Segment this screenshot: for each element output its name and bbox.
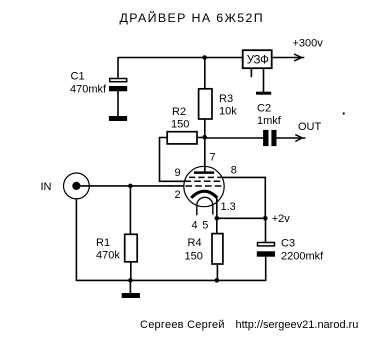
wire U1 to ground — [263, 68, 265, 92]
node cathode/R4 — [215, 216, 220, 221]
wire U1 stub pin — [250, 68, 252, 76]
tube grid g1 (bottom dashed) — [185, 185, 221, 187]
svg-text:7: 7 — [210, 152, 216, 164]
svg-text:150: 150 — [171, 119, 189, 131]
wire pin 8 to +2v node — [222, 177, 265, 218]
wire C1 bottom — [117, 91, 119, 116]
wire OUT — [277, 137, 306, 139]
svg-text:C2: C2 — [257, 103, 271, 115]
capacitor C2 — [263, 130, 276, 146]
wire C1 top — [117, 57, 119, 78]
arrow +300v — [294, 54, 301, 61]
wire R2 right to node — [197, 137, 205, 139]
svg-text:ДРАЙВЕР НА 6Ж52П: ДРАЙВЕР НА 6Ж52П — [120, 10, 265, 25]
tube grid g2 (middle dashed) — [185, 180, 223, 182]
capacitor C3 — [257, 243, 275, 257]
node R1/ground bus — [128, 278, 133, 283]
wire ground bus bottom — [76, 279, 265, 281]
svg-text:C1: C1 — [71, 71, 85, 83]
wire C3 bottom — [265, 257, 267, 281]
node anode (R2/R3/C2/plate) — [202, 135, 207, 140]
svg-text:+300v: +300v — [293, 38, 324, 50]
connector IN — [64, 173, 90, 199]
svg-text:R4: R4 — [188, 237, 202, 249]
tube cathode — [191, 191, 217, 198]
capacitor C1 — [109, 79, 127, 92]
wire R3 top — [204, 58, 206, 89]
wire R3 bottom — [204, 119, 206, 138]
resistor R4 — [212, 234, 223, 264]
node IN/R1 — [128, 184, 133, 189]
wire heater pin 5 — [212, 205, 214, 214]
svg-text:УЗФ: УЗФ — [247, 55, 269, 67]
wire R2 left to grid pin 9 — [160, 138, 185, 182]
wire ground stub — [129, 280, 131, 293]
ground U1 — [256, 92, 271, 95]
svg-text:R2: R2 — [172, 106, 186, 118]
arrow OUT — [295, 135, 301, 142]
svg-text:10k: 10k — [219, 106, 237, 118]
svg-text:IN: IN — [41, 181, 52, 193]
wire R1 top — [129, 186, 131, 234]
block U1 (УЗФ power filter) — [243, 50, 272, 68]
svg-text:Сергеев Сергей: Сергеев Сергей — [140, 319, 225, 331]
svg-text:470k: 470k — [96, 250, 120, 262]
svg-text:5: 5 — [202, 220, 208, 232]
stray dot — [343, 112, 345, 114]
ground C1 — [109, 116, 127, 121]
svg-text:470mkf: 470mkf — [70, 84, 107, 96]
svg-text:2: 2 — [175, 189, 181, 201]
tube V1 envelope — [184, 166, 224, 206]
resistor R3 — [199, 89, 212, 119]
tube grid g3 (top dashed) — [189, 176, 221, 178]
resistor R2 — [167, 132, 197, 144]
wire cathode lead pins 1,3 — [216, 197, 218, 219]
svg-text:http://sergeev21.narod.ru: http://sergeev21.narod.ru — [236, 319, 359, 331]
wire heater pin 4 — [196, 205, 198, 215]
wire IN shield down — [75, 199, 77, 282]
svg-text:1mkf: 1mkf — [257, 115, 282, 127]
wire C3 top — [265, 218, 267, 242]
node top (R3 / top bus) — [202, 55, 207, 60]
wire +300v — [272, 57, 305, 59]
node R4/ground bus — [215, 278, 220, 283]
svg-text:R3: R3 — [219, 93, 233, 105]
wire top bus — [118, 57, 243, 59]
svg-text:1.3: 1.3 — [221, 201, 236, 213]
svg-text:+2v: +2v — [272, 213, 291, 225]
wire anode lead pin 7 — [204, 138, 206, 172]
ground R1 — [122, 293, 140, 298]
wire R4 bottom — [216, 264, 218, 281]
node +2v — [263, 216, 268, 221]
wire R4 top — [216, 218, 218, 233]
wire R1 bottom — [130, 262, 132, 281]
tube heater arc — [197, 197, 213, 205]
wire IN to grid pin 2 — [81, 185, 184, 187]
tube anode plate — [194, 171, 214, 174]
resistor R1 — [125, 234, 138, 261]
wire cathode node to +2v node — [217, 217, 265, 219]
svg-text:OUT: OUT — [298, 121, 322, 133]
svg-text:R1: R1 — [96, 237, 110, 249]
svg-text:2200mkf: 2200mkf — [281, 251, 324, 263]
svg-text:4: 4 — [192, 220, 198, 232]
svg-text:8: 8 — [231, 165, 237, 177]
wire node to C2 — [205, 137, 264, 139]
svg-text:9: 9 — [175, 167, 181, 179]
svg-text:C3: C3 — [281, 238, 295, 250]
svg-text:150: 150 — [185, 251, 203, 263]
